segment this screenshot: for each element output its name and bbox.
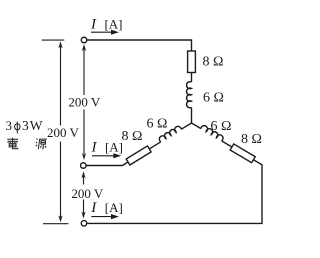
svg-text:6 Ω: 6 Ω (147, 117, 168, 132)
svg-text:8 Ω: 8 Ω (241, 132, 262, 147)
svg-text:I [A]: I [A] (90, 200, 122, 216)
svg-text:200 V: 200 V (68, 95, 101, 110)
svg-text:I [A]: I [A] (90, 16, 122, 32)
svg-text:6 Ω: 6 Ω (211, 119, 232, 134)
svg-text:200 V: 200 V (47, 125, 80, 140)
svg-text:8 Ω: 8 Ω (122, 129, 143, 144)
svg-text:3: 3 (6, 118, 13, 133)
svg-text:8 Ω: 8 Ω (203, 55, 224, 70)
svg-text:I [A]: I [A] (91, 139, 123, 155)
svg-text:200 V: 200 V (71, 186, 104, 201)
svg-text:3W: 3W (22, 118, 44, 133)
svg-text:6 Ω: 6 Ω (203, 91, 224, 106)
